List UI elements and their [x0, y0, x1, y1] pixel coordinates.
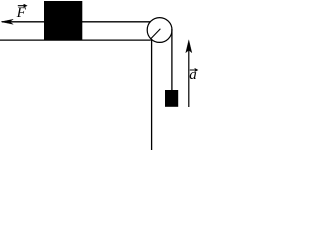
- acceleration arrow a (pointing up): [186, 40, 192, 107]
- label F (vector): [16, 4, 27, 21]
- label a (vector): [189, 67, 197, 83]
- svg-text:F: F: [16, 5, 27, 21]
- table edge (vertical): [151, 40, 153, 151]
- wire: rope from force arrow to pulley: [2, 21, 152, 23]
- pulley radius mark: [151, 29, 161, 39]
- block M on table: [44, 1, 82, 40]
- pulley: [147, 18, 172, 43]
- wire: rope from pulley down to hanging mass: [171, 29, 173, 90]
- hanging mass m: [165, 90, 178, 107]
- table surface: [0, 39, 151, 41]
- force arrowhead (F, pointing left): [1, 19, 13, 24]
